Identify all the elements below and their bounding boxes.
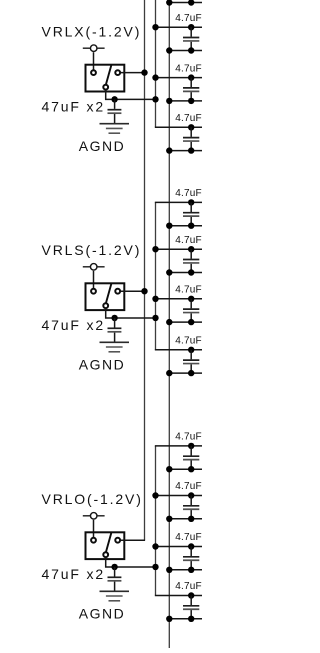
wire: switch S2 common to supply bus [106,308,156,318]
capacitor C6 4.7uF [190,299,192,309]
wire: C1 bottom wire (y=50.5) [169,50,202,52]
wire: terminal TP3 to switch S3 pin 1 [93,520,95,537]
junction: C4 bottom wire / AGND bus [166,223,172,229]
terminal TP3 VRLO input (circle with bar) [83,515,105,517]
switch S1 pin 3 (common, bottom) [103,85,108,90]
switch S3 pin 1 (top left) [91,538,96,543]
junction: C10 top wire / supply bus [152,543,158,549]
wire: C2 bottom wire (y=100.9) [169,100,202,102]
junction: C5 bottom wire / AGND bus [166,269,172,275]
switch S1 pin 1 (top left) [91,70,96,75]
wire: C8 top wire (y=445.9) [155,445,202,447]
switch S1 pin 2 (top right) [115,70,120,75]
svg-text:4.7uF: 4.7uF [175,188,202,199]
junction: C9 bottom wire / cap stub [188,516,194,522]
switch S1 body [86,65,125,92]
junction: C8 bottom wire / cap stub [188,466,194,472]
wire: terminal TP1 to switch S1 pin 1 [93,52,95,69]
svg-text:VRLO(-1.2V): VRLO(-1.2V) [42,491,143,507]
capacitor C8 4.7uF [190,446,192,456]
junction: C1 top wire / supply bus [152,24,158,30]
junction: C6 top wire / supply bus [152,296,158,302]
junction: C9 top wire / cap stub [188,492,194,498]
junction: C3 bottom wire / cap stub [188,147,194,153]
wire: C3 top wire (y=127.3) [155,126,202,128]
junction: C5 top wire / cap stub [188,246,194,252]
svg-text:4.7uF: 4.7uF [175,481,202,492]
capacitor CB2 47uF x2 [114,318,116,328]
junction: C2 top wire / supply bus [152,74,158,80]
junction: C9 top wire / supply bus [152,492,158,498]
junction: S1 common wire / supply bus [152,96,158,102]
junction: C5 bottom wire / cap stub [188,269,194,275]
svg-text:4.7uF: 4.7uF [175,532,202,543]
wire: switch S1 pin 2 to output bus [121,72,146,74]
switch S2 pin 2 (top right) [115,289,120,294]
wire: switch S3 pin 2 to output bus [121,539,146,541]
svg-text:4.7uF: 4.7uF [175,432,202,443]
svg-text:AGND: AGND [79,138,125,154]
wire: C11 bottom wire (y=618.8) [169,618,202,620]
junction: C4 bottom wire / cap stub [188,223,194,229]
wire: C9 top wire (y=495.5) [155,495,202,497]
wire: C7 bottom wire (y=373.1) [169,372,202,374]
capacitor C2 4.7uF [190,78,192,88]
junction: C4 top wire / cap stub [188,199,194,205]
wire: C9 bottom wire (y=518.8) [169,518,202,520]
capacitor C10 4.7uF [190,547,192,557]
junction: S2 pin 2 wire / output bus [141,288,147,294]
junction: C1 bottom wire / cap stub [188,47,194,53]
svg-text:47uF x2: 47uF x2 [42,317,106,333]
wire: C7 top wire (y=349.8) [155,349,202,351]
svg-text:47uF x2: 47uF x2 [42,566,106,582]
switch S2 lever [106,284,111,303]
terminal TP1 VRLX input (circle with bar) [83,47,105,49]
capacitor C1 4.7uF [190,27,192,37]
junction: C11 bottom wire / cap stub [188,616,194,622]
junction: C8 bottom wire / AGND bus [166,466,172,472]
wire: C2 top wire (y=77.6) [155,77,202,79]
capacitor C7 4.7uF [190,350,192,360]
junction: C7 bottom wire / AGND bus [166,370,172,376]
capacitor C4 4.7uF [190,202,192,212]
junction: C8 top wire / cap stub [188,443,194,449]
junction: C0 bottom wire / AGND bus [166,0,172,6]
capacitor C3 4.7uF [190,127,192,137]
wire: C10 bottom wire (y=569.8) [169,569,202,571]
svg-text:AGND: AGND [79,357,125,373]
svg-text:4.7uF: 4.7uF [175,113,202,124]
capacitor C9 4.7uF [190,496,192,506]
capacitor C5 4.7uF [190,249,192,259]
wire: C6 bottom wire (y=322.1) [169,321,202,323]
wire: VRLX supply branch bus (vertical x=155.5) [155,0,157,127]
terminal TP2 VRLS input (circle with bar) [83,266,105,268]
svg-text:VRLS(-1.2V): VRLS(-1.2V) [42,242,142,258]
wire: switch output bus (vertical x=144.5, from top edge down to VRLO switch) [144,0,146,540]
ground AGND symbol (block 2) [100,341,130,343]
junction: C10 top wire / cap stub [188,543,194,549]
svg-text:VRLX(-1.2V): VRLX(-1.2V) [42,23,142,39]
junction: S1 pin 2 wire / output bus [141,69,147,75]
switch S1 lever [106,65,111,84]
capacitor CB3 47uF x2 [114,567,116,577]
wire: C6 top wire (y=298.8) [155,298,202,300]
wire: C11 top wire (y=595.5) [155,595,202,597]
wire: bottom wire of off-screen capacitor C0 (y=2.5) [169,2,202,4]
junction: C10 bottom wire / AGND bus [166,567,172,573]
svg-text:4.7uF: 4.7uF [175,336,202,347]
junction: C0 bottom wire / cap stub [188,0,194,6]
wire: switch S3 common to supply bus [106,557,156,567]
wire: C4 bottom wire (y=225.7) [169,225,202,227]
ground AGND symbol (block 3) [100,590,130,592]
junction: S2 common wire / supply bus [152,315,158,321]
wire: C1 top wire (y=27.2) [155,26,202,28]
svg-text:4.7uF: 4.7uF [175,63,202,74]
junction: C6 top wire / cap stub [188,296,194,302]
wire: C4 top wire (y=202.4) [155,201,202,203]
svg-text:4.7uF: 4.7uF [175,235,202,246]
wire: switch S2 pin 2 to output bus [121,290,146,292]
switch S3 body [86,532,125,559]
capacitor CB1 47uF x2 [114,99,116,109]
capacitor C11 4.7uF [190,596,192,606]
junction: S3 common wire / bulk cap CB3 [111,564,117,570]
svg-text:4.7uF: 4.7uF [175,285,202,296]
svg-text:4.7uF: 4.7uF [175,581,202,592]
junction: C3 top wire / cap stub [188,124,194,130]
switch S3 lever [106,533,111,552]
wire: VRLO supply branch bus (vertical x=155.5) [155,446,157,596]
wire: C3 bottom wire (y=150.6) [169,150,202,152]
junction: S3 common wire / supply bus [152,564,158,570]
wire: C5 top wire (y=249.2) [155,248,202,250]
junction: C6 bottom wire / cap stub [188,319,194,325]
wire: C10 top wire (y=546.5) [155,546,202,548]
junction: C2 bottom wire / AGND bus [166,98,172,104]
svg-text:AGND: AGND [79,606,125,622]
junction: S2 common wire / bulk cap CB2 [111,315,117,321]
switch S2 pin 1 (top left) [91,289,96,294]
switch S2 body [86,283,125,310]
junction: C11 bottom wire / AGND bus [166,616,172,622]
wire: VRLS supply branch bus (vertical x=155.5) [155,202,157,349]
junction: C2 bottom wire / cap stub [188,98,194,104]
wire: terminal TP2 to switch S2 pin 1 [93,271,95,288]
junction: C7 bottom wire / cap stub [188,370,194,376]
wire: AGND return bus (vertical x=169.3, full height) [168,0,170,648]
switch S3 pin 3 (common, bottom) [103,552,108,557]
junction: C1 top wire / cap stub [188,24,194,30]
svg-text:4.7uF: 4.7uF [175,13,202,24]
switch S3 pin 2 (top right) [115,538,120,543]
junction: C6 bottom wire / AGND bus [166,319,172,325]
wire: C8 bottom wire (y=469.2) [169,468,202,470]
junction: C11 top wire / cap stub [188,592,194,598]
junction: C1 bottom wire / AGND bus [166,47,172,53]
junction: C2 top wire / cap stub [188,74,194,80]
ground AGND symbol (block 1) [100,123,130,125]
junction: C10 bottom wire / cap stub [188,567,194,573]
svg-text:47uF x2: 47uF x2 [42,99,106,115]
junction: C9 bottom wire / AGND bus [166,516,172,522]
junction: C7 top wire / cap stub [188,347,194,353]
junction: S1 common wire / bulk cap CB1 [111,96,117,102]
wire: switch S1 common to supply bus [106,90,156,100]
junction: C5 top wire / supply bus [152,246,158,252]
switch S2 pin 3 (common, bottom) [103,303,108,308]
wire: C5 bottom wire (y=272.5) [169,272,202,274]
junction: C3 bottom wire / AGND bus [166,147,172,153]
